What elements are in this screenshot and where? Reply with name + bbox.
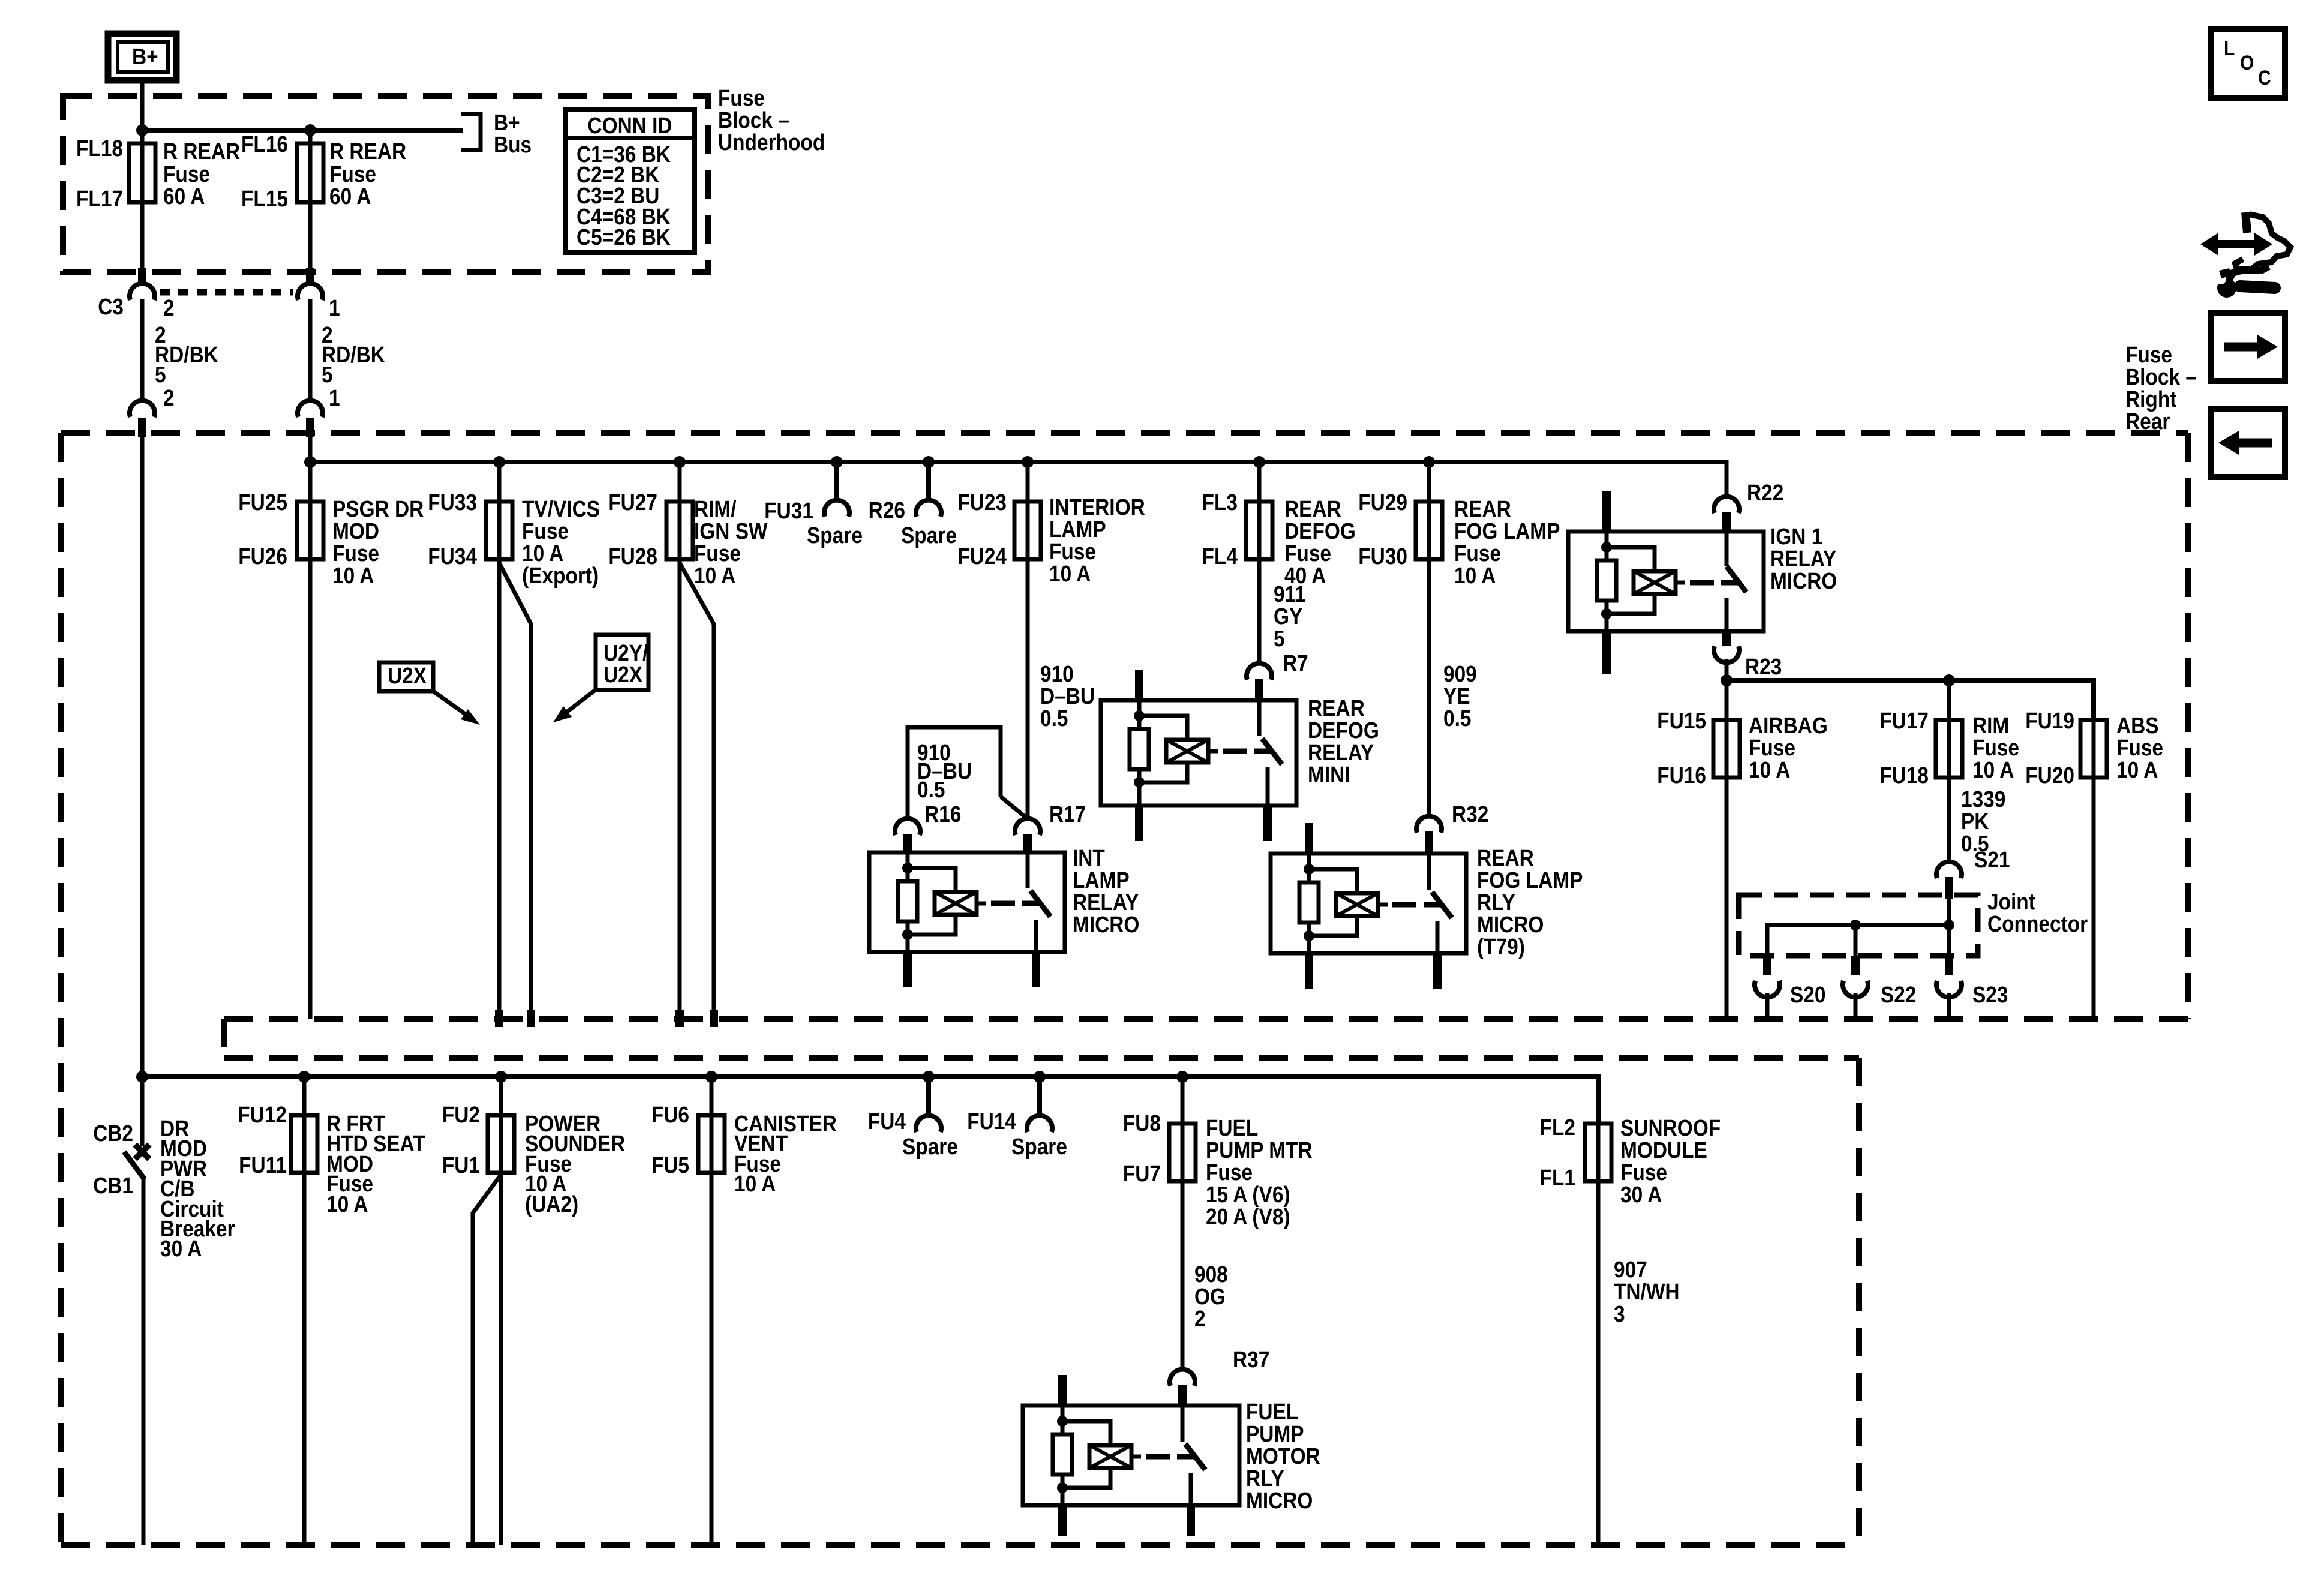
junction R23 bus x3249 [1943,674,1955,686]
label box U2X with arrow [379,662,480,725]
wire joint connector internal bus [1767,925,1949,956]
svg-text:FU34: FU34 [428,544,477,569]
svg-text:FL18: FL18 [76,136,123,161]
connector C3 cavity 1 (upper) [298,268,340,320]
wire label 1339 PK 0.5 [1961,786,2005,856]
svg-text:CB1: CB1 [93,1173,133,1198]
circuit breaker CB2/CB1 DR MOD PWR C/B 30 A [93,1116,235,1545]
relay K2 resistor [1130,729,1149,769]
svg-text:S23: S23 [1972,982,2008,1007]
svg-text:FU23: FU23 [957,490,1007,515]
junction joint bus S23 [1944,920,1954,930]
svg-text:Spare: Spare [1011,1134,1067,1159]
relay K1 coil [908,868,956,935]
junction bus x1395 [831,456,843,468]
svg-text:10 A: 10 A [734,1171,776,1196]
junction bus x832 [493,456,505,468]
svg-text:FU29: FU29 [1358,490,1407,515]
relay K1 coil pin [906,852,910,952]
fuse FU19/FU20 ABS 10 A [2025,708,2163,1019]
svg-text:FU8: FU8 [1123,1110,1161,1136]
svg-text:FL16: FL16 [241,131,288,157]
svg-text:FL1: FL1 [1540,1165,1575,1190]
fuse FU12/FU11 R FRT HTD SEAT MOD 10 A [238,1077,425,1545]
svg-text:(UA2): (UA2) [525,1191,578,1217]
relay K1 INT LAMP RELAY MICRO [869,845,1139,987]
icon arrow right box [2211,313,2285,381]
joint connector dashed box [1739,889,2088,956]
junction bus x1548 [923,456,935,468]
svg-text:FU1: FU1 [442,1152,480,1178]
fuse block underhood dashed box [63,85,825,272]
connector C3 cavity 1 (lower) [298,385,340,437]
wire circuit 2 RD/BK 5 (left leg) [142,299,218,401]
relay K2 coil top pin [1135,670,1143,700]
power symbol B+ (battery feed) [108,34,176,80]
relay K3 bottom pins [1305,953,1313,989]
svg-text:FU16: FU16 [1657,763,1706,788]
label box U2Y/U2X with arrow [553,635,648,722]
connector R32 [1416,801,1488,854]
junction lower bus x835 [495,1071,507,1083]
connector S20 [1755,956,1825,1019]
relay K3 coil [1309,869,1357,936]
svg-text:FU18: FU18 [1879,763,1929,788]
svg-text:FL4: FL4 [1202,544,1238,569]
svg-text:FU14: FU14 [967,1109,1016,1134]
stub branch wire at box edge [527,1010,535,1027]
node B+ Bus terminal [461,110,532,157]
svg-text:C5=26 BK: C5=26 BK [577,224,671,250]
svg-text:FU31: FU31 [764,498,813,523]
connector R23 [1714,631,1782,680]
svg-text:30 A: 30 A [1620,1182,1662,1207]
svg-text:0.5: 0.5 [917,777,945,802]
stub FU27 wire at box edge [675,1010,684,1027]
svg-text:U2X: U2X [603,662,642,687]
connector R17 [1015,801,1086,852]
junction bus x1713 [1022,456,1034,468]
wire circuit 2 RD/BK 5 (right leg) [310,299,385,401]
svg-text:(T79): (T79) [1477,934,1525,959]
relay K1 resistor [898,881,917,921]
relay K4 coil bottom pin [1602,631,1611,674]
fuse FU6/FU5 CANISTER VENT 10 A [651,1077,837,1545]
svg-text:FU6: FU6 [651,1102,689,1127]
relay K4 resistor [1597,560,1616,601]
junction joint bus S22 [1850,920,1861,930]
fuse FU8/FU7 FUEL PUMP MTR [1123,1077,1313,1369]
relay K5 coil pin [1061,1406,1065,1505]
relay K1 switch [1026,852,1030,888]
relay K3 coil pin [1307,854,1311,953]
connector S23 [1936,956,2008,1019]
junction bus x517 [304,456,316,468]
svg-text:FU4: FU4 [868,1109,906,1134]
svg-text:FU24: FU24 [957,544,1007,569]
connector R37 [1170,1347,1269,1407]
fuse FU2/FU1 POWER SOUNDER 10 A (UA2) [442,1077,625,1545]
svg-text:10 A: 10 A [332,563,374,588]
relay K4 coil pin [1605,532,1609,631]
spare position R26 [869,462,957,548]
relay K4 coil top pin [1602,491,1611,532]
relay K5 bottom pins [1058,1505,1067,1536]
svg-text:3: 3 [1614,1301,1625,1326]
wire R23 branch bus [1727,680,2094,720]
connector S22 [1843,956,1916,1019]
wire right feed C3-1 down into fuse block (x=517) [308,436,313,462]
svg-text:2: 2 [163,385,175,410]
svg-text:FU33: FU33 [428,490,477,515]
svg-text:R37: R37 [1233,1347,1269,1372]
svg-text:1: 1 [329,385,340,410]
svg-text:FL3: FL3 [1202,490,1238,515]
svg-text:FL15: FL15 [241,186,288,211]
svg-text:10 A: 10 A [1049,561,1091,586]
svg-text:60 A: 60 A [329,184,371,209]
svg-text:Spare: Spare [901,523,957,548]
svg-text:FU2: FU2 [442,1102,480,1127]
svg-text:C3: C3 [98,294,124,319]
svg-text:FU11: FU11 [239,1152,287,1178]
junction lower bus x1186 [705,1071,717,1083]
wire label 907 TN/WH 3 [1614,1257,1680,1326]
svg-text:10 A: 10 A [1749,757,1790,782]
svg-text:CONN ID: CONN ID [587,113,672,138]
junction lower bus x1548 [923,1071,935,1083]
fuse FU23/FU24 INTERIOR LAMP 10 A [957,462,1145,818]
svg-text:R7: R7 [1283,650,1308,676]
relay K4 switch [1725,533,1729,566]
junction lower bus x1733 [1034,1071,1046,1083]
svg-text:MINI: MINI [1308,762,1350,787]
svg-text:FU17: FU17 [1879,708,1929,733]
svg-text:R22: R22 [1747,480,1783,505]
wire label 911 GY 5 [1274,581,1306,651]
svg-text:(Export): (Export) [522,563,599,588]
wire main bus of right rear fuse block [310,460,1727,464]
connector R7 [1247,650,1308,700]
fusible link FL16/FL15 R REAR Fuse 60 A [241,130,406,269]
wire S22 drop [1854,925,1858,956]
svg-text:R REAR: R REAR [163,139,240,164]
svg-text:MICRO: MICRO [1770,568,1837,593]
svg-text:5: 5 [322,362,333,387]
junction R23 bus x2878 [1721,674,1733,686]
svg-text:L: L [2224,37,2235,59]
relay K3 REAR FOG LAMP RLY MICRO (T79) [1271,823,1583,989]
svg-text:Bus: Bus [494,132,532,157]
wire label 910 D-BU 0.5 (R16 branch) [917,740,972,802]
spare position FU4 [868,1077,958,1159]
connector R16 [895,801,961,852]
relay K3 resistor [1299,882,1319,923]
relay K3 coil top pin [1305,823,1313,854]
svg-text:10 A: 10 A [1972,757,2014,782]
svg-text:U2X: U2X [388,663,427,688]
svg-text:Rear: Rear [2125,409,2170,434]
icon LOC box [2211,29,2285,98]
junction at FL15 wire / bus [304,124,316,136]
fusible link FL18 R REAR Fuse 60 A [76,130,240,269]
svg-text:CB2: CB2 [93,1121,133,1146]
svg-text:10 A: 10 A [694,563,735,588]
svg-text:1: 1 [329,295,340,320]
connector S21 [1936,847,2010,925]
stub FU33 wire at box edge [495,1010,503,1027]
wire branch U2Y/U2X from FU34 [499,563,531,1010]
svg-text:0.5: 0.5 [1040,706,1068,731]
fuse FU29/FU30 REAR FOG LAMP 10 A [1358,462,1560,816]
relay K2 switch [1257,700,1262,736]
relay K4 IGN 1 RELAY MICRO [1568,491,1837,674]
wire from B+ down to B+ bus [140,80,145,143]
fuse block right rear dashed outline [61,342,2197,1545]
svg-text:FU20: FU20 [2025,763,2074,788]
relay K1 bottom pins [903,952,912,987]
svg-text:Spare: Spare [902,1134,958,1159]
svg-text:20 A (V8): 20 A (V8) [1206,1204,1290,1229]
svg-text:R17: R17 [1049,801,1086,827]
relay K5 FUEL PUMP MOTOR RLY MICRO [1023,1375,1320,1536]
svg-text:0.5: 0.5 [1443,706,1471,731]
junction bus x2382 [1423,456,1435,468]
svg-text:FU12: FU12 [238,1102,287,1127]
wire label 910 D-BU 0.5 (R17 branch) [1040,661,1095,731]
svg-text:FU7: FU7 [1123,1161,1161,1186]
fuse FU17/FU18 RIM 10 A [1879,680,2019,861]
svg-text:10 A: 10 A [2116,757,2158,782]
fuse FU15/FU16 AIRBAG 10 A [1657,680,1828,1019]
fuse FU27/FU28 RIM/IGN SW 10 A [608,462,768,1010]
icon arrow left box [2211,409,2285,477]
relay K4 coil [1607,547,1655,614]
wire branch from FU1 [473,1175,501,1545]
svg-text:60 A: 60 A [163,184,205,209]
relay K5 switch [1181,1407,1185,1442]
svg-text:R32: R32 [1452,801,1488,827]
fuse FL3/FL4 REAR DEFOG 40 A [1202,462,1356,663]
wire left feed C3-2 down to circuit breaker (x=237) [140,436,145,1146]
junction bus x1133 [674,456,686,468]
svg-text:C: C [2258,66,2271,89]
svg-text:2: 2 [163,295,175,320]
svg-text:B+: B+ [132,44,158,69]
relay K2 bottom pins [1135,806,1143,841]
wire label 908 OG 2 [1194,1262,1228,1331]
junction bus x2099 [1253,456,1265,468]
svg-text:FU5: FU5 [651,1152,689,1178]
svg-text:Underhood: Underhood [718,130,825,155]
svg-text:R26: R26 [869,497,905,523]
junction lower bus x237 [136,1071,148,1083]
svg-text:S22: S22 [1881,982,1916,1007]
spare position FU31 [764,462,863,548]
wire branch from FU28 [680,563,714,1010]
svg-text:R23: R23 [1745,654,1782,679]
connector R22 [1714,480,1783,533]
wire S23 drop [1947,925,1951,956]
relay K2 REAR DEFOG RELAY MINI [1101,670,1379,841]
svg-text:5: 5 [155,362,166,387]
svg-text:S20: S20 [1790,982,1825,1007]
junction lower bus x507 [298,1071,310,1083]
svg-text:FU15: FU15 [1657,708,1706,733]
dotted tie line between C3 cavities [160,289,293,296]
wire label 909 YE 0.5 [1443,661,1477,731]
fuse FL2/FL1 SUNROOF MODULE 30 A [1540,1115,1721,1545]
table CONN ID [565,109,695,253]
svg-text:R16: R16 [924,801,961,827]
wire B+ bus horizontal [142,128,463,133]
svg-text:Connector: Connector [1987,911,2088,936]
svg-text:FU30: FU30 [1358,544,1407,569]
stub branch wire at box edge [710,1010,718,1027]
svg-text:R REAR: R REAR [329,139,406,164]
svg-text:FL2: FL2 [1540,1115,1575,1140]
relay K5 resistor [1053,1434,1072,1475]
svg-text:FU27: FU27 [608,490,657,515]
relay K5 coil [1062,1421,1110,1488]
spare position FU14 [967,1077,1067,1159]
relay K2 coil pin [1137,700,1142,806]
svg-text:FU25: FU25 [238,490,287,515]
svg-text:MICRO: MICRO [1073,912,1139,937]
svg-text:FU28: FU28 [608,544,657,569]
relay K3 switch [1427,854,1431,890]
svg-text:FU26: FU26 [238,544,287,569]
svg-text:5: 5 [1274,626,1285,651]
connector C3 cavity 2 (upper) [98,268,174,320]
wire lower section bus [142,1077,1598,1124]
wire bus corner down to R22 [1725,460,1729,496]
icon vehicle component with arrow and wrench [2200,212,2290,298]
svg-text:FL17: FL17 [76,186,123,211]
connector C3 cavity 2 (lower) [130,385,175,437]
svg-text:10 A: 10 A [326,1191,368,1217]
relay K5 coil top pin [1058,1375,1067,1406]
fuse FU25/FU26 PSGR DR MOD 10 A [238,462,424,1019]
svg-text:10 A: 10 A [1454,563,1496,588]
svg-text:Spare: Spare [807,523,863,548]
svg-text:S21: S21 [1974,847,2010,872]
svg-text:30 A: 30 A [160,1236,202,1261]
relay K2 coil [1139,716,1187,782]
junction at B+ wire / bus [136,124,148,136]
wire hook branch to R16 coil [908,727,1028,819]
svg-text:FU19: FU19 [2025,708,2074,733]
fuse FU33/FU34 TV/VICS 10 A (Export) [428,462,600,1010]
svg-text:MICRO: MICRO [1246,1488,1313,1513]
svg-text:O: O [2240,51,2254,74]
svg-text:2: 2 [1194,1306,1206,1331]
junction lower bus x1971 [1176,1071,1188,1083]
